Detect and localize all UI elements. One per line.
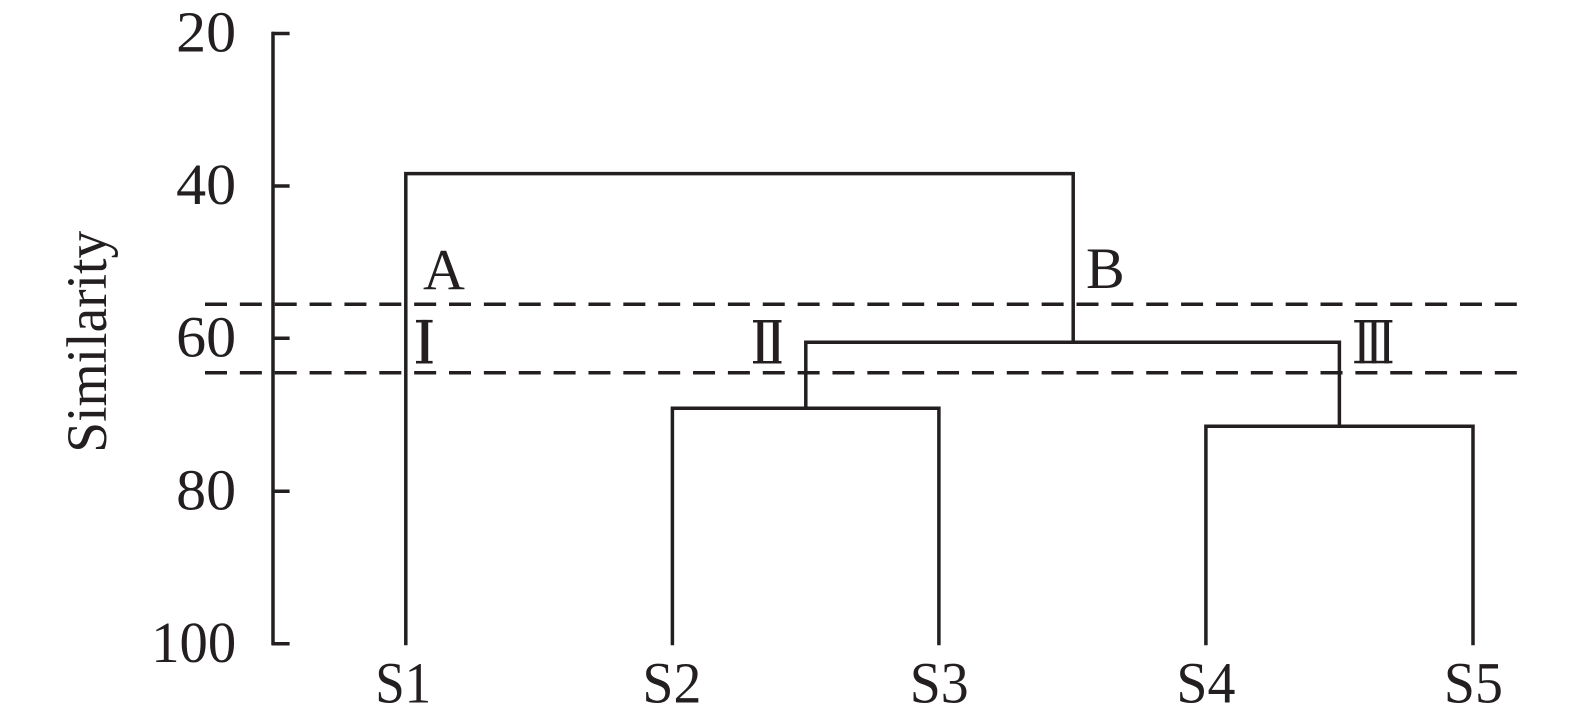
cluster label III (roman numeral)	[1354, 320, 1392, 363]
svg-text:80: 80	[176, 457, 236, 522]
svg-text:Similarity: Similarity	[56, 230, 119, 452]
y-axis tick 80	[272, 490, 290, 494]
dashed threshold line 1 (upper)	[205, 302, 1517, 306]
svg-text:60: 60	[176, 304, 236, 369]
svg-text:40: 40	[176, 152, 236, 217]
svg-text:B: B	[1086, 236, 1125, 301]
y-axis tick 60	[272, 337, 290, 341]
dendrogram S2-S3 join	[672, 408, 939, 645]
svg-text:S2: S2	[642, 651, 701, 716]
y-axis tick 40	[272, 184, 290, 188]
cluster label I (roman numeral)	[416, 320, 433, 364]
svg-text:S4: S4	[1176, 651, 1235, 716]
dendrogram S4-S5 join	[1206, 426, 1473, 645]
dendrogram cluster A-B root link (S1 branch, top bar, B branch)	[406, 174, 1073, 646]
y-axis tick 20	[272, 32, 290, 36]
svg-text:S1: S1	[375, 651, 431, 716]
y-axis tick 100	[272, 642, 290, 646]
svg-text:100: 100	[151, 610, 236, 675]
svg-text:S3: S3	[910, 651, 969, 716]
dendrogram cluster II-III link bar	[806, 342, 1340, 426]
y-axis line	[271, 32, 275, 646]
svg-text:20: 20	[176, 0, 236, 65]
cluster label II (roman numeral)	[753, 320, 782, 364]
dashed threshold line 2 (lower)	[205, 371, 1517, 375]
svg-text:A: A	[423, 238, 465, 303]
svg-text:S5: S5	[1444, 651, 1503, 716]
